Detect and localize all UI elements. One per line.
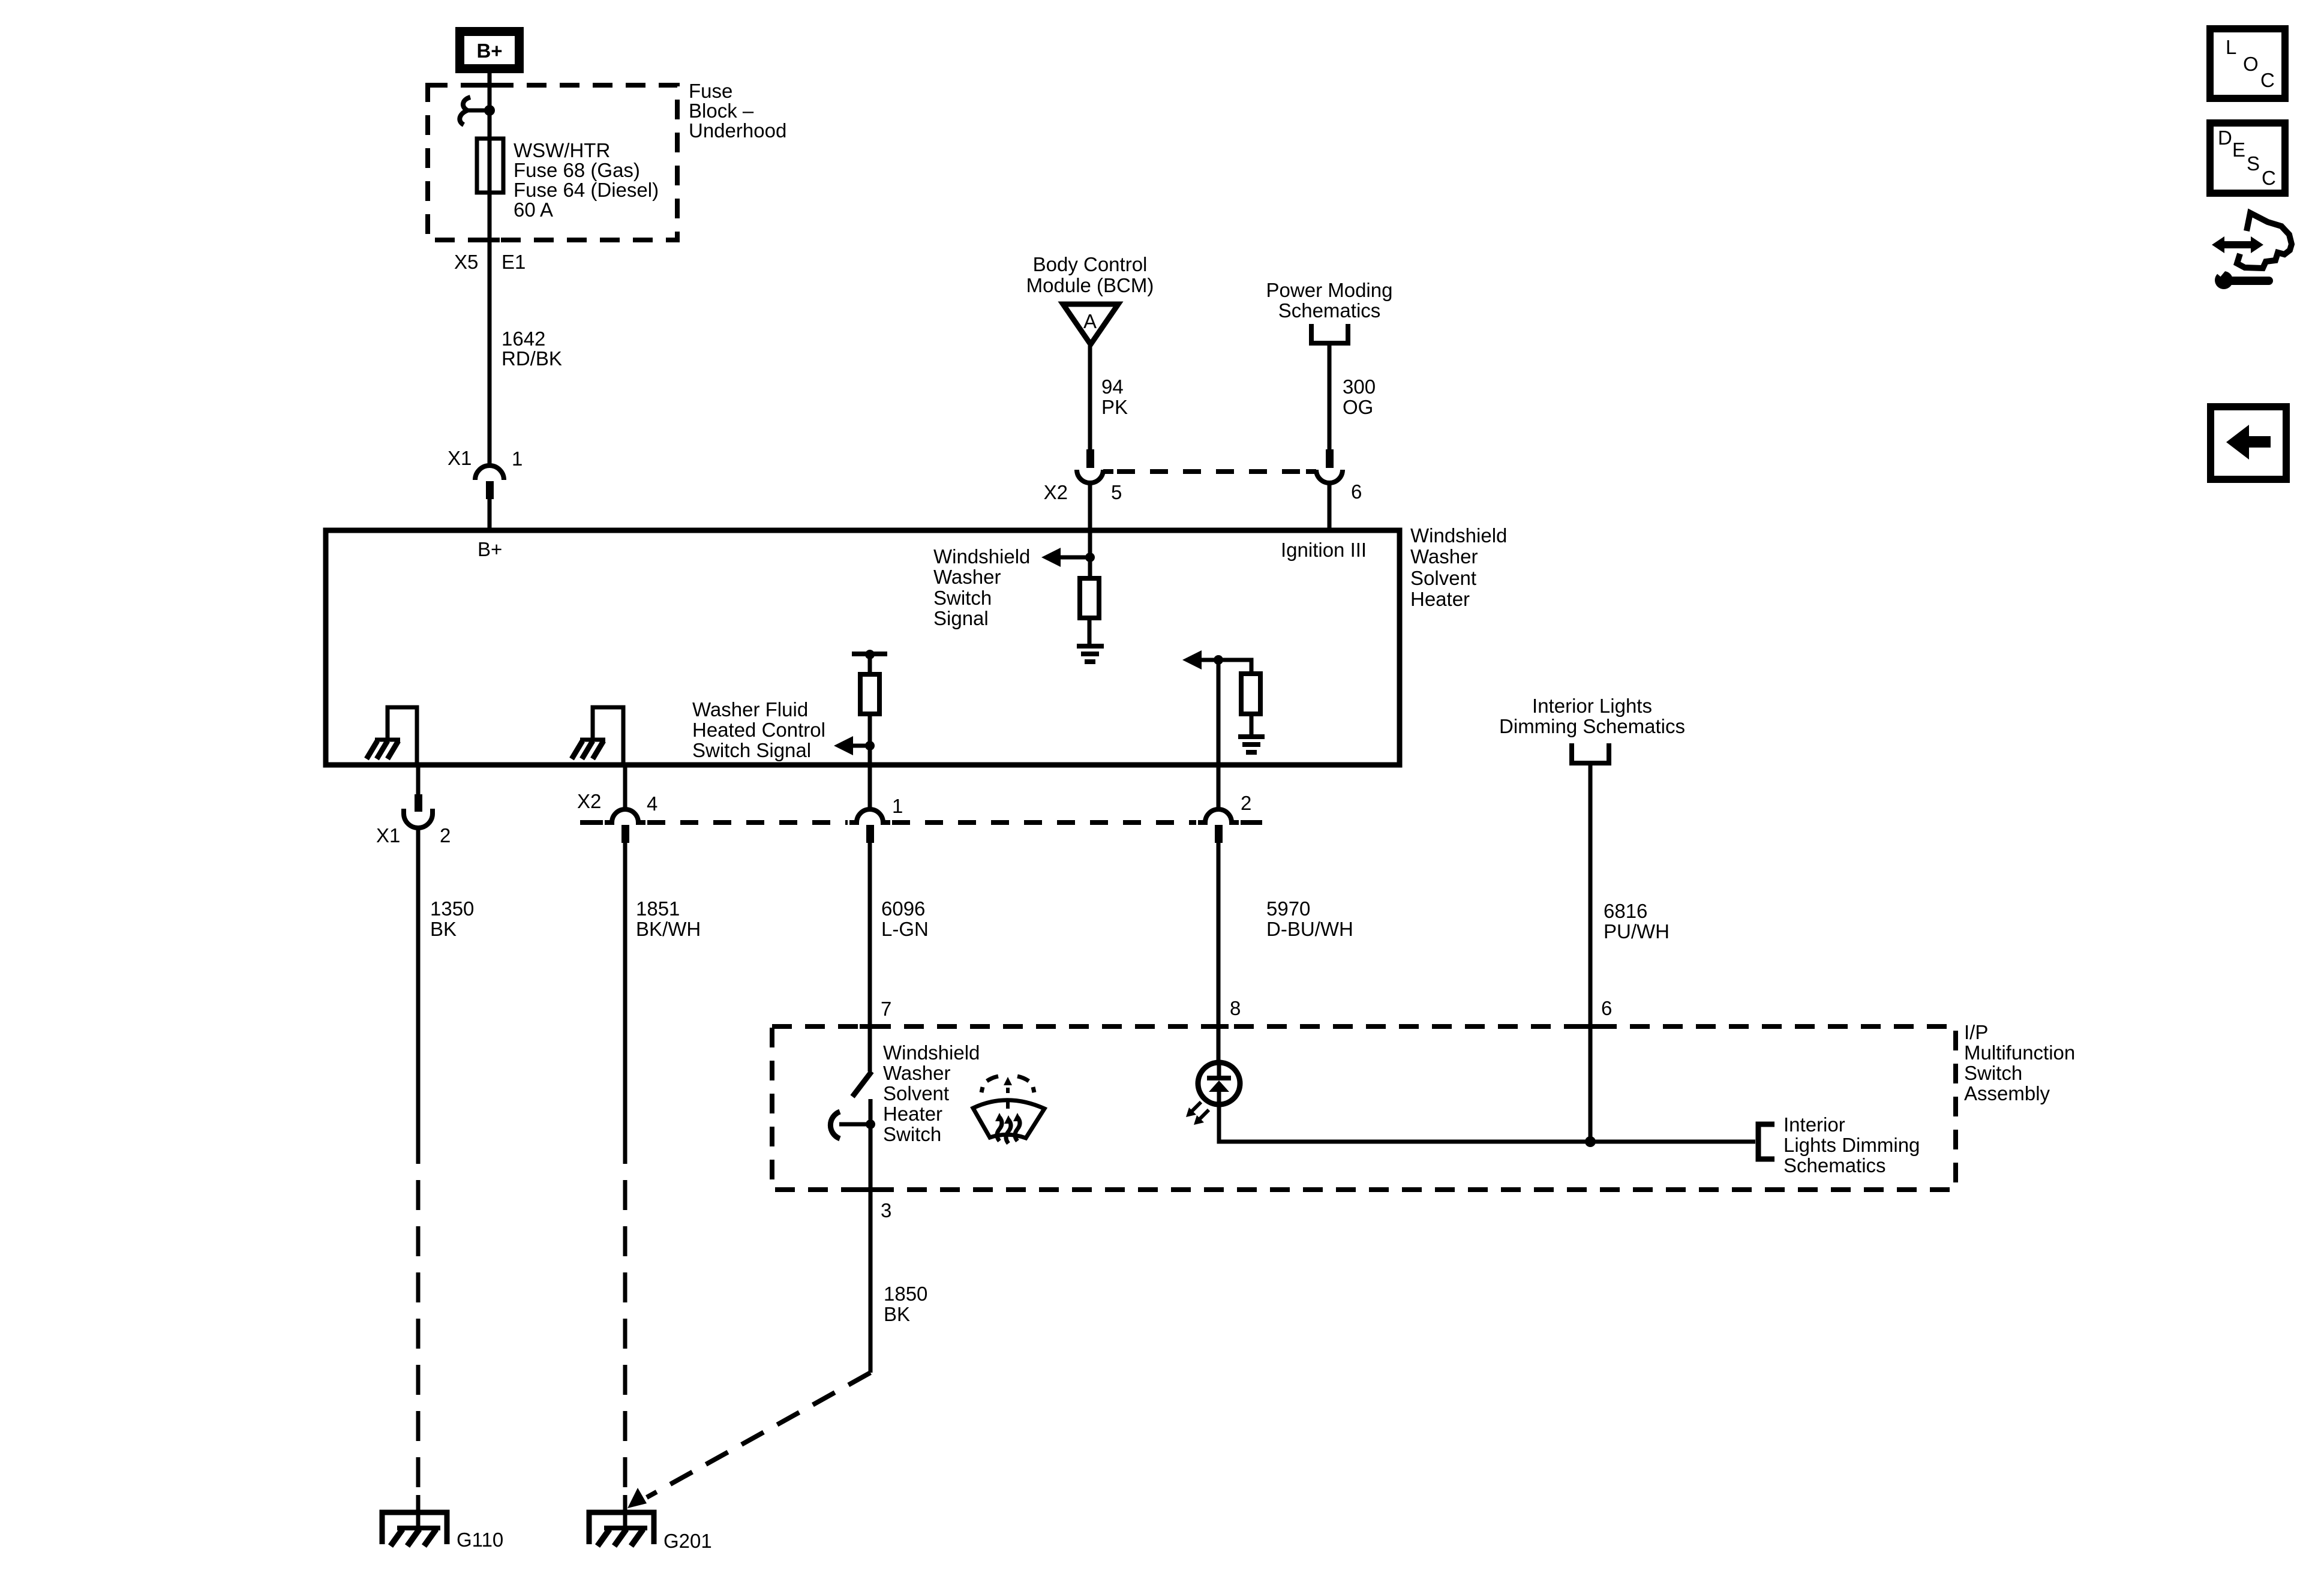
label Interior Lights Dimming Schematics (inner) — [1783, 1113, 1920, 1176]
label X1 | 1 — [448, 447, 523, 470]
wire connector X2-4 upper stub — [623, 765, 627, 811]
label Interior Lights Dimming Schematics (top reference) — [1499, 695, 1685, 737]
svg-text:5970: 5970 — [1266, 897, 1310, 920]
wire 1851 solid part — [623, 843, 627, 1134]
wire resistor down through box to connector 1 — [868, 714, 872, 809]
svg-text:PU/WH: PU/WH — [1604, 920, 1670, 942]
label 1850 BK — [884, 1283, 927, 1325]
svg-text:Multifunction: Multifunction — [1964, 1041, 2075, 1064]
arrow windshield washer switch signal — [1041, 548, 1090, 567]
tick pin 8 crossing — [1208, 1024, 1229, 1029]
tick pin 6 crossing — [1580, 1024, 1601, 1029]
svg-text:2: 2 — [1241, 792, 1251, 814]
svg-text:Windshield: Windshield — [933, 545, 1030, 568]
label Windshield Washer Solvent Heater Switch — [883, 1041, 980, 1145]
wire resistor to earth ground — [1088, 618, 1092, 646]
dashed in-harness line between pins 5 and 6 — [1117, 469, 1305, 474]
ground G201 — [589, 1512, 654, 1546]
svg-text:Solvent: Solvent — [1410, 567, 1476, 589]
label Power Moding Schematics — [1266, 279, 1393, 322]
svg-text:X2: X2 — [1044, 481, 1068, 503]
svg-text:S: S — [2247, 152, 2260, 175]
svg-text:B+: B+ — [476, 40, 502, 62]
connector X2 pin 5 — [1077, 449, 1113, 483]
svg-text:Washer: Washer — [933, 566, 1001, 588]
wire 1350 solid part — [416, 828, 421, 1134]
svg-text:Heater: Heater — [883, 1103, 942, 1125]
wire switch to pin 3 — [869, 1125, 873, 1373]
power feed box B+ — [455, 27, 524, 73]
junction dot 6816 on dimming bus — [1585, 1136, 1596, 1147]
wire LED to dimming bus — [1219, 1104, 1755, 1142]
switch fixed contact — [869, 1099, 873, 1125]
svg-text:1851: 1851 — [636, 897, 680, 920]
junction dot at fusible link tap — [484, 105, 495, 116]
svg-text:X1: X1 — [376, 824, 400, 846]
svg-text:Washer: Washer — [883, 1062, 950, 1084]
label 6096 L-GN — [881, 897, 929, 940]
LED light arrows — [1186, 1102, 1209, 1125]
svg-text:Fuse 64 (Diesel): Fuse 64 (Diesel) — [514, 179, 659, 201]
junction dot switch — [866, 1119, 875, 1129]
wire 1350 dashed part to G110 — [416, 1134, 421, 1495]
svg-text:L: L — [2226, 36, 2236, 58]
label Fuse Block - Underhood — [689, 80, 786, 142]
label 6816 PU/WH — [1604, 900, 1670, 942]
svg-text:Windshield: Windshield — [1410, 524, 1507, 547]
svg-text:Interior Lights: Interior Lights — [1532, 695, 1652, 717]
svg-text:1642: 1642 — [502, 328, 545, 350]
connector X2 pin 4 — [605, 809, 645, 843]
label 94 PK — [1101, 376, 1128, 418]
heated windshield icon heat arrows — [995, 1113, 1022, 1143]
svg-text:1: 1 — [512, 448, 523, 470]
svg-text:4: 4 — [647, 792, 657, 815]
wire 6816 bracket to pin 6 — [1589, 763, 1593, 1142]
svg-text:O: O — [2243, 53, 2259, 75]
svg-text:BK: BK — [430, 918, 457, 940]
switch blade windshield washer solvent heater switch — [852, 1071, 872, 1097]
svg-text:E1: E1 — [502, 251, 526, 273]
svg-text:6816: 6816 — [1604, 900, 1647, 922]
arrowhead at G201 end of 1850 wire — [627, 1488, 647, 1508]
svg-text:Washer: Washer — [1410, 545, 1478, 568]
svg-text:Washer Fluid: Washer Fluid — [692, 698, 808, 721]
internal wire ignition III to resistor — [1088, 530, 1092, 578]
svg-text:OG: OG — [1343, 396, 1373, 418]
label X2 | 5 — [1044, 481, 1122, 503]
svg-text:D-BU/WH: D-BU/WH — [1266, 918, 1353, 940]
svg-text:Signal: Signal — [933, 607, 989, 629]
wire module box to connector X1-2 — [416, 765, 421, 794]
svg-text:Module (BCM): Module (BCM) — [1026, 274, 1154, 296]
I/P multifunction switch assembly dashed box — [772, 1026, 1956, 1190]
label X1 | 2 — [376, 824, 451, 846]
tick where wire crosses fuse block bottom edge — [479, 238, 500, 242]
wire 300 OG — [1328, 343, 1332, 449]
tick where wire crosses fuse block top edge — [479, 83, 500, 88]
wire connector 6 to module box (Ignition III) — [1328, 483, 1332, 530]
svg-text:6: 6 — [1601, 997, 1612, 1019]
wire 94 PK from BCM — [1088, 346, 1092, 449]
svg-text:300: 300 — [1343, 376, 1376, 398]
tick pin 3 crossing — [860, 1187, 880, 1192]
svg-text:2: 2 — [440, 824, 451, 846]
svg-text:A: A — [1083, 310, 1097, 332]
switch momentary curl — [830, 1112, 840, 1139]
svg-text:Block –: Block – — [689, 100, 754, 122]
svg-text:Schematics: Schematics — [1278, 299, 1381, 322]
resistor internal (heated control) — [860, 674, 879, 714]
svg-text:X1: X1 — [448, 447, 472, 469]
svg-text:Ignition III: Ignition III — [1281, 539, 1367, 561]
wire stub into G201 — [623, 1495, 627, 1529]
wire fuse to connector X1-1 — [488, 193, 492, 467]
svg-text:7: 7 — [881, 998, 891, 1020]
wire T-bar to resistor — [868, 654, 872, 674]
svg-text:D: D — [2218, 127, 2232, 149]
label 5970 D-BU/WH — [1266, 897, 1353, 940]
wire B+ feed down into fuse block — [488, 73, 492, 140]
svg-text:Assembly: Assembly — [1964, 1082, 2050, 1104]
icon back arrow box — [2211, 407, 2286, 479]
connector X1 pin 2 — [404, 794, 433, 828]
chassis ground internal left 2 rake — [572, 740, 605, 759]
resistor internal (ignition input) — [1080, 578, 1099, 618]
resistor internal (indicator) — [1241, 674, 1260, 714]
wire connector 5 to module box — [1088, 483, 1092, 530]
svg-text:94: 94 — [1101, 376, 1124, 398]
svg-text:RD/BK: RD/BK — [502, 347, 562, 370]
junction dot on T-bar — [865, 650, 875, 659]
svg-text:X2: X2 — [577, 790, 601, 812]
svg-text:Interior: Interior — [1783, 1113, 1845, 1136]
svg-text:60 A: 60 A — [514, 199, 553, 221]
svg-text:5: 5 — [1111, 481, 1122, 503]
label Windshield Washer Switch Signal — [933, 545, 1030, 629]
chassis ground internal left 1 rake — [367, 740, 400, 759]
LED indicator lamp — [1198, 1062, 1240, 1104]
fusible link squiggle — [460, 97, 490, 125]
label Body Control Module (BCM) — [1026, 253, 1154, 296]
heated windshield icon dashed arc — [981, 1076, 1034, 1109]
label 1350 BK — [430, 897, 474, 940]
svg-text:Dimming Schematics: Dimming Schematics — [1499, 715, 1685, 737]
svg-text:Power Moding: Power Moding — [1266, 279, 1393, 301]
off-page reference bracket interior lights dimming — [1572, 743, 1609, 763]
svg-text:I/P: I/P — [1964, 1021, 1988, 1043]
svg-text:Fuse 68 (Gas): Fuse 68 (Gas) — [514, 159, 640, 181]
svg-text:Switch: Switch — [1964, 1062, 2022, 1084]
fuse block underhood dashed box — [428, 85, 677, 240]
chassis ground internal left 1 wire — [388, 707, 417, 765]
junction dot heated control switch signal — [865, 741, 875, 751]
BCM triangle connector A — [1063, 304, 1118, 344]
wire junction down to connector 2 — [1217, 660, 1221, 809]
connector pin 1 — [849, 809, 890, 843]
svg-text:C: C — [2262, 167, 2276, 189]
off-page reference bracket Power Moding — [1311, 324, 1348, 343]
wire resistor 3 to earth ground — [1250, 714, 1254, 737]
svg-text:6096: 6096 — [881, 897, 925, 920]
svg-text:Switch: Switch — [883, 1123, 941, 1145]
label wire 1642 RD/BK — [502, 328, 562, 370]
svg-text:Heated Control: Heated Control — [692, 719, 825, 741]
earth ground internal 2 — [1238, 737, 1265, 752]
svg-text:WSW/HTR: WSW/HTR — [514, 139, 610, 161]
svg-text:B+: B+ — [478, 538, 502, 560]
label WSW/HTR Fuse 68 (Gas) Fuse 64 (Diesel) 60 A — [514, 139, 659, 221]
windshield washer solvent heater module box — [326, 530, 1400, 765]
label 300 OG — [1343, 376, 1376, 418]
label Windshield Washer Solvent Heater (module name) — [1410, 524, 1507, 610]
dashed in-harness line connector row — [580, 820, 1262, 825]
svg-text:G201: G201 — [663, 1530, 712, 1552]
junction dot washer switch signal — [1085, 553, 1095, 562]
svg-text:PK: PK — [1101, 396, 1128, 418]
svg-text:E: E — [2232, 139, 2245, 161]
fuse WSW/HTR 60 A — [477, 139, 503, 193]
label Washer Fluid Heated Control Switch Signal — [692, 698, 825, 761]
icon DESC box — [2210, 123, 2285, 193]
svg-text:L-GN: L-GN — [881, 918, 929, 940]
svg-text:G110: G110 — [457, 1529, 503, 1551]
tick pin 7 crossing — [860, 1024, 880, 1029]
svg-text:1850: 1850 — [884, 1283, 927, 1305]
icon LOC box — [2210, 29, 2285, 98]
svg-text:Switch Signal: Switch Signal — [692, 739, 811, 761]
label X5 | E1 — [454, 251, 526, 273]
svg-text:3: 3 — [881, 1199, 891, 1221]
label I/P Multifunction Switch Assembly — [1964, 1021, 2075, 1104]
label 1851 BK/WH — [636, 897, 701, 940]
svg-text:BK/WH: BK/WH — [636, 918, 701, 940]
svg-text:6: 6 — [1351, 481, 1362, 503]
svg-text:Switch: Switch — [933, 587, 992, 609]
wire 6096 connector 1 to switch pin 7 — [868, 843, 872, 1071]
earth ground internal 1 — [1077, 646, 1104, 662]
svg-text:C: C — [2260, 69, 2275, 91]
svg-text:1350: 1350 — [430, 897, 474, 920]
wire connector X1-1 to module box — [488, 499, 492, 530]
connector X1 pin 1 — [475, 466, 504, 499]
svg-text:1: 1 — [892, 795, 903, 817]
heated windshield icon outline — [973, 1100, 1044, 1138]
svg-text:X5: X5 — [454, 251, 478, 273]
connector pin 2 (heater) — [1198, 809, 1239, 843]
label X2 | 4 — [577, 790, 657, 815]
connector X2 pin 6 — [1306, 449, 1343, 483]
svg-text:Schematics: Schematics — [1783, 1154, 1886, 1176]
wire 1850 dashed diagonal to G201 — [647, 1373, 870, 1497]
svg-text:Lights Dimming: Lights Dimming — [1783, 1134, 1920, 1156]
svg-text:Underhood: Underhood — [689, 119, 786, 142]
wire stub into G110 — [416, 1495, 421, 1529]
arrow washer fluid heated control switch signal — [834, 736, 870, 755]
in-page reference bracket interior lights dimming — [1758, 1124, 1774, 1159]
svg-text:BK: BK — [884, 1303, 910, 1325]
svg-text:Heater: Heater — [1410, 588, 1470, 610]
wire 5970 connector 2 to LED pin 8 — [1217, 843, 1221, 1064]
junction dot indicator feed — [1214, 655, 1223, 665]
arrow indicator feed (points left) — [1182, 650, 1218, 670]
internal T-bar above heated control resistor — [852, 652, 887, 656]
svg-text:8: 8 — [1230, 997, 1241, 1019]
svg-text:Fuse: Fuse — [689, 80, 732, 102]
svg-text:Solvent: Solvent — [883, 1082, 949, 1104]
ground G110 — [382, 1512, 447, 1546]
svg-text:Body Control: Body Control — [1033, 253, 1148, 275]
icon vehicle connector view (car with arrow and wrench) — [2212, 213, 2292, 289]
chassis ground internal left 2 wire — [593, 707, 623, 765]
wire 1851 dashed part to G201 — [623, 1134, 627, 1495]
elbow wire junction to resistor 3 — [1218, 660, 1251, 674]
switch actuator bar — [839, 1122, 870, 1127]
svg-text:Windshield: Windshield — [883, 1041, 980, 1064]
